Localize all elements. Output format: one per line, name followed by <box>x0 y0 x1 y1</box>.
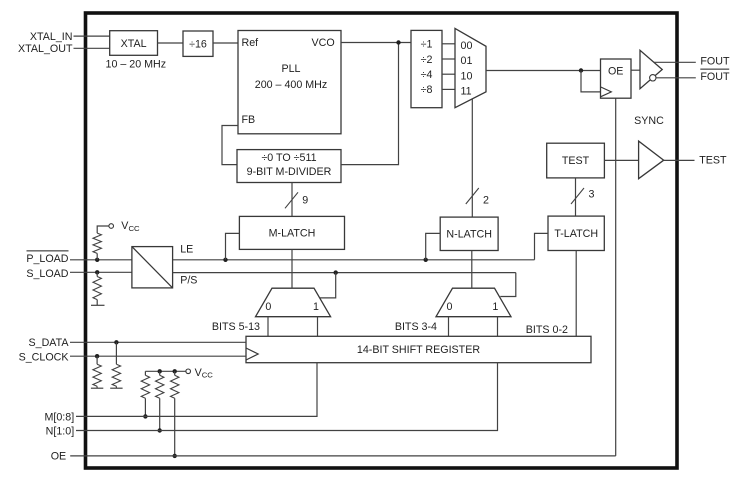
svg-text:XTAL: XTAL <box>121 38 147 50</box>
svg-text:01: 01 <box>461 55 473 67</box>
svg-text:FOUT: FOUT <box>700 71 730 83</box>
svg-text:M[0:8]: M[0:8] <box>44 411 74 423</box>
svg-text:P_LOAD: P_LOAD <box>26 253 68 265</box>
svg-text:2: 2 <box>483 194 489 206</box>
svg-text:÷4: ÷4 <box>421 69 433 81</box>
svg-text:OE: OE <box>51 451 66 463</box>
svg-text:FB: FB <box>242 114 256 126</box>
svg-text:M-LATCH: M-LATCH <box>269 227 316 239</box>
svg-text:10 – 20 MHz: 10 – 20 MHz <box>106 58 167 70</box>
svg-text:0: 0 <box>447 301 453 313</box>
svg-text:T-LATCH: T-LATCH <box>554 228 598 240</box>
svg-text:FOUT: FOUT <box>700 56 730 68</box>
svg-text:TEST: TEST <box>699 155 727 167</box>
svg-text:BITS 5-13: BITS 5-13 <box>212 321 260 333</box>
svg-text:XTAL_OUT: XTAL_OUT <box>18 43 73 55</box>
svg-text:OE: OE <box>608 66 623 78</box>
svg-text:1: 1 <box>492 301 498 313</box>
svg-text:XTAL_IN: XTAL_IN <box>30 31 73 43</box>
svg-text:SYNC: SYNC <box>634 115 664 127</box>
svg-text:N[1:0]: N[1:0] <box>46 425 75 437</box>
svg-text:LE: LE <box>180 243 193 255</box>
svg-text:3: 3 <box>589 188 595 200</box>
svg-text:P/S: P/S <box>180 275 197 287</box>
svg-text:11: 11 <box>461 86 472 98</box>
svg-text:BITS 0-2: BITS 0-2 <box>526 324 568 336</box>
svg-text:PLL: PLL <box>281 63 300 75</box>
svg-text:00: 00 <box>461 40 473 52</box>
svg-text:10: 10 <box>461 70 473 82</box>
svg-text:S_LOAD: S_LOAD <box>26 268 68 280</box>
svg-text:S_CLOCK: S_CLOCK <box>19 352 70 364</box>
svg-text:9-BIT M-DIVIDER: 9-BIT M-DIVIDER <box>247 166 332 178</box>
svg-text:÷1: ÷1 <box>421 39 433 51</box>
svg-text:÷16: ÷16 <box>189 38 207 50</box>
svg-text:200 – 400 MHz: 200 – 400 MHz <box>255 79 327 91</box>
svg-text:N-LATCH: N-LATCH <box>446 228 492 240</box>
svg-text:0: 0 <box>265 301 271 313</box>
svg-text:÷0 TO ÷511: ÷0 TO ÷511 <box>261 152 316 164</box>
svg-text:Ref: Ref <box>242 37 259 49</box>
svg-text:÷2: ÷2 <box>421 54 433 66</box>
svg-text:9: 9 <box>302 195 308 207</box>
svg-text:14-BIT SHIFT REGISTER: 14-BIT SHIFT REGISTER <box>357 344 480 356</box>
svg-text:1: 1 <box>313 301 319 313</box>
svg-text:÷8: ÷8 <box>421 84 433 96</box>
svg-text:BITS 3-4: BITS 3-4 <box>395 321 437 333</box>
svg-text:S_DATA: S_DATA <box>29 337 70 349</box>
svg-text:VCO: VCO <box>312 37 335 49</box>
svg-text:TEST: TEST <box>562 155 590 167</box>
